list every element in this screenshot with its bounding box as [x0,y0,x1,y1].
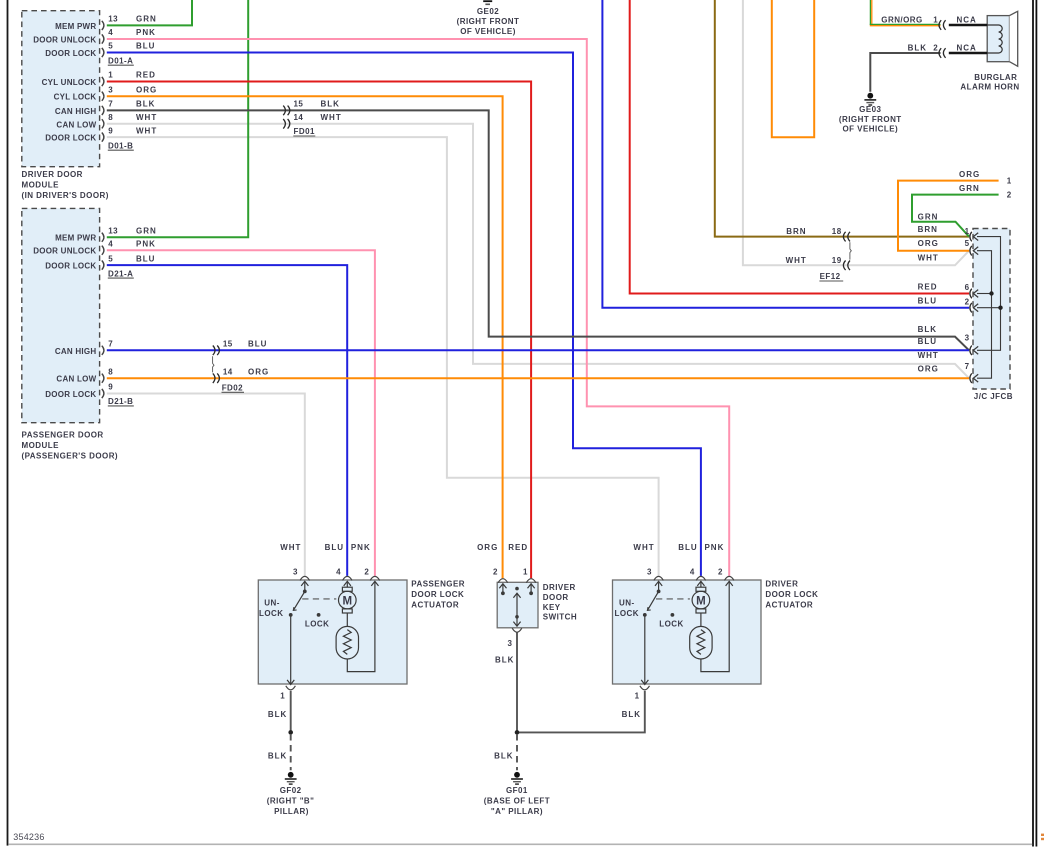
actuator dashed link switch to motor [302,598,336,600]
actuator pin2 entry arrow [726,581,733,586]
svg-text:FD02: FD02 [222,384,243,393]
svg-text:(RIGHT "B": (RIGHT "B" [267,797,315,806]
driver door module box D01 [22,11,100,167]
svg-text:GE03: GE03 [859,105,881,114]
pin bracket passenger module pin5 [102,261,104,270]
svg-text:(IN DRIVER'S DOOR): (IN DRIVER'S DOOR) [22,191,109,200]
key switch pin2 top arc [498,579,508,583]
svg-text:4: 4 [108,28,113,37]
key switch pin1 top arc [526,579,536,583]
svg-text:BLU: BLU [918,297,937,306]
actuator switch common dot [303,590,307,594]
svg-text:ORG: ORG [959,170,980,179]
actuator pin4 top arc [696,576,706,580]
svg-text:6: 6 [965,283,970,292]
svg-text:GF01: GF01 [506,786,528,795]
svg-text:GRN: GRN [959,184,980,193]
actuator PTC return wire to pin2 [347,581,375,671]
wire GRN passenger pin13 MEM PWR up to top edge [107,0,248,237]
svg-text:(RIGHT FRONT: (RIGHT FRONT [457,17,520,26]
JFCB junction dot pin2 bus [998,306,1002,310]
wire WHT driver pin9 DOOR LOCK to driver actuator pin3 [107,137,659,576]
JFCB junction dot pin6 bus [989,291,993,295]
actuator motor to PTC wire [700,613,702,626]
svg-text:2: 2 [933,44,938,53]
svg-text:BLU: BLU [248,340,267,349]
actuator motor brush top [342,587,352,591]
svg-text:LOCK: LOCK [615,609,639,618]
actuator unlock contact dot [643,613,647,617]
JFCB pin 2 connector [970,303,972,313]
svg-text:BRN: BRN [786,227,806,236]
connector FD02 pin15 [213,346,215,356]
svg-text:RED: RED [508,543,528,552]
svg-text:MEM PWR: MEM PWR [55,234,96,243]
actuator dashed link switch to motor [656,598,690,600]
svg-text:2: 2 [965,297,970,306]
svg-text:CAN HIGH: CAN HIGH [55,107,97,116]
connector FD02 pin14 [213,373,215,383]
burglar alarm horn cone [1010,11,1018,66]
svg-text:RED: RED [136,71,156,80]
actuator pin2 top arc [370,576,380,580]
svg-text:RED: RED [918,282,938,291]
svg-text:CYL LOCK: CYL LOCK [54,93,97,102]
actuator unlock contact dot [289,613,293,617]
JFCB pin 7 connector [970,373,972,383]
svg-text:1: 1 [108,71,113,80]
svg-text:9: 9 [108,383,113,392]
svg-text:J/C JFCB: J/C JFCB [974,392,1013,401]
pin bracket driver module pin9 [102,133,104,142]
svg-text:UN-: UN- [619,598,635,607]
svg-text:LOCK: LOCK [659,620,683,629]
svg-text:PASSENGER: PASSENGER [411,579,465,588]
svg-text:BLU: BLU [136,254,155,263]
svg-text:WHT: WHT [633,543,654,552]
svg-text:D21-A: D21-A [108,269,133,278]
svg-text:MODULE: MODULE [22,181,60,190]
key switch pin2 contact arrow [499,584,506,589]
JFCB pin 6 connector [970,289,972,299]
key switch wiper arrow [513,593,520,598]
pin bracket driver module pin13 [102,21,104,30]
svg-text:M: M [696,595,706,607]
actuator motor brush top [696,587,706,591]
svg-text:EF12: EF12 [820,272,841,281]
actuator motor [339,591,357,609]
actuator motor feed arrow [697,581,704,586]
actuator motor [692,591,710,609]
splice dot GF02 wire [288,730,293,735]
svg-text:BLK: BLK [494,751,513,760]
passenger door module box D21 [22,208,100,422]
svg-text:2: 2 [364,568,369,577]
key switch pin3 bottom arc [512,628,522,632]
actuator pin3 entry arrow [655,581,662,586]
svg-text:DRIVER DOOR: DRIVER DOOR [22,170,83,179]
driver door key switch box [497,582,538,628]
pin bracket driver module pin8 [102,119,104,128]
svg-text:4: 4 [336,568,341,577]
wire BLU driver pin5 DOOR LOCK to driver actuator pin4 [107,53,701,576]
svg-text:BLU: BLU [325,543,344,552]
svg-text:WHT: WHT [918,351,939,360]
connector horn pin1 [939,20,941,30]
svg-text:BLK: BLK [622,710,641,719]
wire BLU passenger pin7 CAN HIGH to JFCB pin3 [107,349,969,351]
splice dot GF01 wire [515,730,520,735]
svg-text:DOOR LOCK: DOOR LOCK [411,590,464,599]
svg-text:ACTUATOR: ACTUATOR [411,601,459,610]
svg-text:BLK: BLK [321,100,340,109]
key switch wiper lower dot [515,615,519,619]
connector horn pin2 [939,48,941,58]
ground GF02 [288,772,294,778]
page border right double line [1032,0,1034,847]
svg-text:3: 3 [108,85,113,94]
actuator PTC capsule [336,626,358,659]
wire WHT from top via EF12 pin19 to JFCB pin5 [743,0,969,265]
key switch pin2 contact dot [501,591,505,595]
svg-text:BLU: BLU [678,543,697,552]
actuator PTC resistor zigzag [697,630,705,655]
svg-text:DOOR LOCK: DOOR LOCK [45,49,96,58]
svg-text:GF02: GF02 [280,786,302,795]
JFCB internal bus pins 1-2-3 [977,237,1001,351]
passenger door lock actuator box [258,580,407,684]
svg-text:DOOR LOCK: DOOR LOCK [45,262,96,271]
svg-text:DOOR LOCK: DOOR LOCK [45,390,96,399]
pin bracket driver module pin7 [102,106,104,115]
wire PNK passenger pin4 DOOR UNLOCK to passenger actuator pin2 [107,250,375,576]
svg-text:BLK: BLK [268,751,287,760]
actuator pin3 entry arrow [301,581,308,586]
svg-text:1: 1 [280,691,285,700]
actuator PTC capsule [690,626,712,659]
actuator pin1 bottom arc [286,686,296,690]
svg-text:MODULE: MODULE [22,441,60,450]
pin bracket driver module pin3 [102,92,104,101]
burglar alarm horn coil [987,25,1002,53]
svg-text:BURGLAR: BURGLAR [974,73,1017,82]
wire BLK passenger actuator pin1 to splice [290,691,292,733]
wire PNK driver pin4 DOOR UNLOCK to driver actuator pin2 [107,39,729,576]
svg-text:"A" PILLAR): "A" PILLAR) [491,807,543,816]
svg-text:354236: 354236 [13,832,44,842]
svg-text:5: 5 [108,254,113,263]
svg-text:15: 15 [223,340,233,349]
svg-text:WHT: WHT [136,126,157,135]
wire BLU from top edge to JFCB pin2 [602,0,969,308]
actuator pin1 exit arrow [287,680,294,685]
wire RED driver pin1 CYL UNLOCK to key switch pin1 [107,82,531,579]
svg-text:PNK: PNK [136,28,156,37]
svg-text:NCA: NCA [957,44,977,53]
svg-text:3: 3 [647,568,652,577]
key switch pin1 contact dot [529,591,533,595]
wire NCA horn pin1 [949,24,987,26]
actuator pin4 top arc [343,576,353,580]
wire ORG driver pin3 CYL LOCK to key switch pin2 [107,96,503,578]
wire ORG passenger pin8 CAN LOW to JFCB pin7 [107,377,969,379]
actuator switch common dot [657,590,661,594]
ground GE03 [867,93,873,99]
wire WHT passenger pin9 DOOR LOCK to passenger actuator pin3 [107,394,305,576]
svg-text:BLK: BLK [268,710,287,719]
svg-text:WHT: WHT [918,254,939,263]
ground GE02 partial at top edge [483,0,492,2]
svg-text:DRIVER: DRIVER [765,579,798,588]
svg-text:13: 13 [108,15,118,24]
svg-text:ORG: ORG [918,364,939,373]
actuator pin1 bottom arc [640,686,650,690]
svg-text:DOOR LOCK: DOOR LOCK [45,134,96,143]
pin bracket passenger module pin8 [102,374,104,383]
svg-text:OF VEHICLE): OF VEHICLE) [842,125,898,134]
actuator lock contact dot [671,613,675,617]
actuator PTC return wire to pin2 [701,581,729,671]
svg-text:PNK: PNK [351,543,371,552]
svg-text:OF VEHICLE): OF VEHICLE) [460,27,516,36]
wire BRN from top edge via EF12 pin18 to JFCB pin1 [715,0,969,237]
wire NCA horn pin2 [949,52,987,54]
svg-text:15: 15 [294,100,304,109]
pin bracket driver module pin1 [102,77,104,86]
key switch pin1 contact arrow [528,584,535,589]
svg-text:14: 14 [294,113,304,122]
svg-text:BLU: BLU [136,42,155,51]
actuator switch output wire [290,615,292,684]
svg-text:LOCK: LOCK [259,609,283,618]
svg-text:(BASE OF LEFT: (BASE OF LEFT [484,797,550,806]
svg-text:D01-B: D01-B [108,141,133,150]
actuator pin3 top arc [654,576,664,580]
pin bracket driver module pin4 [102,34,104,43]
svg-text:WHT: WHT [136,113,157,122]
svg-text:NCA: NCA [957,15,977,24]
actuator PTC resistor zigzag [343,630,351,655]
svg-text:(RIGHT FRONT: (RIGHT FRONT [839,115,902,124]
connector FD01 pin14 [283,119,285,129]
svg-text:19: 19 [832,256,842,265]
svg-text:(PASSENGER'S DOOR): (PASSENGER'S DOOR) [22,452,119,461]
svg-text:PASSENGER DOOR: PASSENGER DOOR [22,431,104,440]
actuator pin2 entry arrow [371,581,378,586]
wire GRN driver pin13 MEM PWR up to top edge [107,0,192,25]
JFCB pin 3 connector [970,346,972,356]
svg-text:LOCK: LOCK [305,620,329,629]
driver door lock actuator box [613,580,762,684]
svg-text:18: 18 [832,227,842,236]
actuator motor brush bottom [342,609,352,613]
svg-text:BLK: BLK [918,325,937,334]
actuator pin1 exit arrow [641,680,648,685]
svg-text:CAN LOW: CAN LOW [56,120,96,129]
svg-text:DOOR: DOOR [543,593,569,602]
svg-text:5: 5 [965,239,970,248]
actuator motor brush bottom [696,609,706,613]
svg-text:CAN HIGH: CAN HIGH [55,347,97,356]
wire BLK dashed to ground GF02 [290,734,292,770]
svg-text:4: 4 [690,568,695,577]
wire ORG JFCB pin5 to edge pin1 [898,181,999,251]
connector EF12 pin18 [843,232,845,242]
JFCB pin 5 connector [970,246,972,256]
svg-text:13: 13 [108,226,118,235]
wire GRN JFCB pin1 to edge pin2 [912,195,999,237]
svg-text:1: 1 [635,691,640,700]
edge artifact marks right [1041,834,1044,836]
svg-text:ACTUATOR: ACTUATOR [765,601,813,610]
svg-text:CAN LOW: CAN LOW [56,375,96,384]
actuator lock contact dot [317,613,321,617]
svg-text:D01-A: D01-A [108,56,133,65]
JFCB internal stub pin6 [977,293,992,295]
svg-text:DRIVER: DRIVER [543,583,576,592]
ground GF01 [514,772,520,778]
page border bottom [8,843,1032,845]
svg-text:1: 1 [1007,176,1012,185]
wire BLK dashed to ground GF01 [516,734,518,770]
actuator pin3 top arc [300,576,310,580]
svg-text:GRN/ORG: GRN/ORG [881,15,922,24]
svg-text:M: M [343,595,353,607]
svg-text:UN-: UN- [264,598,280,607]
wire BLK horn pin2 to ground GE03 [870,53,940,92]
svg-text:D21-B: D21-B [108,397,133,406]
connector EF12 pin19 [843,261,845,271]
svg-text:FD01: FD01 [294,127,315,136]
svg-text:2: 2 [493,568,498,577]
svg-text:GRN: GRN [136,15,157,24]
svg-text:BLK: BLK [136,100,155,109]
svg-text:DOOR UNLOCK: DOOR UNLOCK [33,247,96,256]
wire GRN/ORG from top edge to horn connector [869,0,871,25]
svg-text:1: 1 [933,15,938,24]
junction connector J/C JFCB box [973,229,1010,390]
wire RED from top edge to JFCB pin6 [630,0,969,294]
wire BLK driver pin7 CAN HIGH to JFCB pin3 [107,110,969,350]
svg-text:ORG: ORG [918,239,939,248]
page border left [7,0,9,846]
pin bracket passenger module pin9 [102,389,104,398]
wire ORG U-loop from top edge [772,0,814,137]
actuator motor to PTC wire [346,613,348,626]
svg-text:BLK: BLK [908,44,927,53]
svg-text:3: 3 [508,639,513,648]
svg-text:ORG: ORG [136,85,157,94]
svg-text:WHT: WHT [786,256,807,265]
svg-text:GRN: GRN [918,213,939,222]
svg-text:DOOR LOCK: DOOR LOCK [765,590,818,599]
svg-text:PILLAR): PILLAR) [274,807,309,816]
burglar alarm horn body [987,16,1009,62]
actuator motor feed arrow [344,581,351,586]
svg-text:14: 14 [223,367,233,376]
svg-text:1: 1 [523,568,528,577]
actuator switch output wire [644,615,646,684]
svg-text:ORG: ORG [248,367,269,376]
svg-text:7: 7 [108,100,113,109]
svg-text:7: 7 [108,340,113,349]
svg-text:9: 9 [108,126,113,135]
svg-text:GE02: GE02 [477,7,499,16]
pin bracket driver module pin5 [102,48,104,57]
JFCB pin 1 connector [970,232,972,242]
pin bracket passenger module pin13 [102,233,104,242]
connector EF12 link line [850,242,851,259]
actuator pin2 top arc [724,576,734,580]
svg-text:4: 4 [108,239,113,248]
connector FD01 pin15 [283,106,285,116]
svg-text:CYL UNLOCK: CYL UNLOCK [42,78,97,87]
svg-text:3: 3 [293,568,298,577]
wire BLK driver actuator pin1 to GF01 splice [519,691,645,733]
svg-text:WHT: WHT [280,543,301,552]
svg-text:2: 2 [718,568,723,577]
svg-text:1: 1 [965,227,970,236]
wire BLU passenger pin5 DOOR LOCK to passenger actuator pin4 [107,265,347,576]
svg-text:KEY: KEY [543,603,561,612]
actuator switch blade [293,591,305,610]
svg-text:SWITCH: SWITCH [543,613,577,622]
svg-text:3: 3 [965,334,970,343]
svg-text:7: 7 [965,362,970,371]
svg-text:WHT: WHT [321,113,342,122]
JFCB internal bus pins 5-6-7 [977,251,992,379]
pin bracket passenger module pin7 [102,346,104,355]
key switch wiper top dot [515,587,519,591]
svg-text:5: 5 [108,42,113,51]
svg-text:2: 2 [1007,190,1012,199]
JFCB internal stub pin2 [977,307,1001,309]
svg-text:MEM PWR: MEM PWR [55,22,96,31]
svg-text:ALARM HORN: ALARM HORN [960,82,1019,91]
connector FD02 link line [213,356,214,372]
svg-text:PNK: PNK [704,543,724,552]
svg-text:DOOR UNLOCK: DOOR UNLOCK [33,36,96,45]
svg-text:8: 8 [108,367,113,376]
svg-text:GRN: GRN [136,226,157,235]
actuator switch blade [647,591,658,610]
wire WHT driver pin8 CAN LOW to JFCB pin7 [107,124,969,378]
svg-text:BRN: BRN [918,225,938,234]
svg-text:PNK: PNK [136,239,156,248]
svg-text:ORG: ORG [477,543,498,552]
svg-text:BLU: BLU [918,337,937,346]
wire BLK key switch pin3 to splice [516,632,518,732]
svg-text:BLK: BLK [495,656,514,665]
pin bracket passenger module pin4 [102,246,104,255]
svg-text:8: 8 [108,113,113,122]
